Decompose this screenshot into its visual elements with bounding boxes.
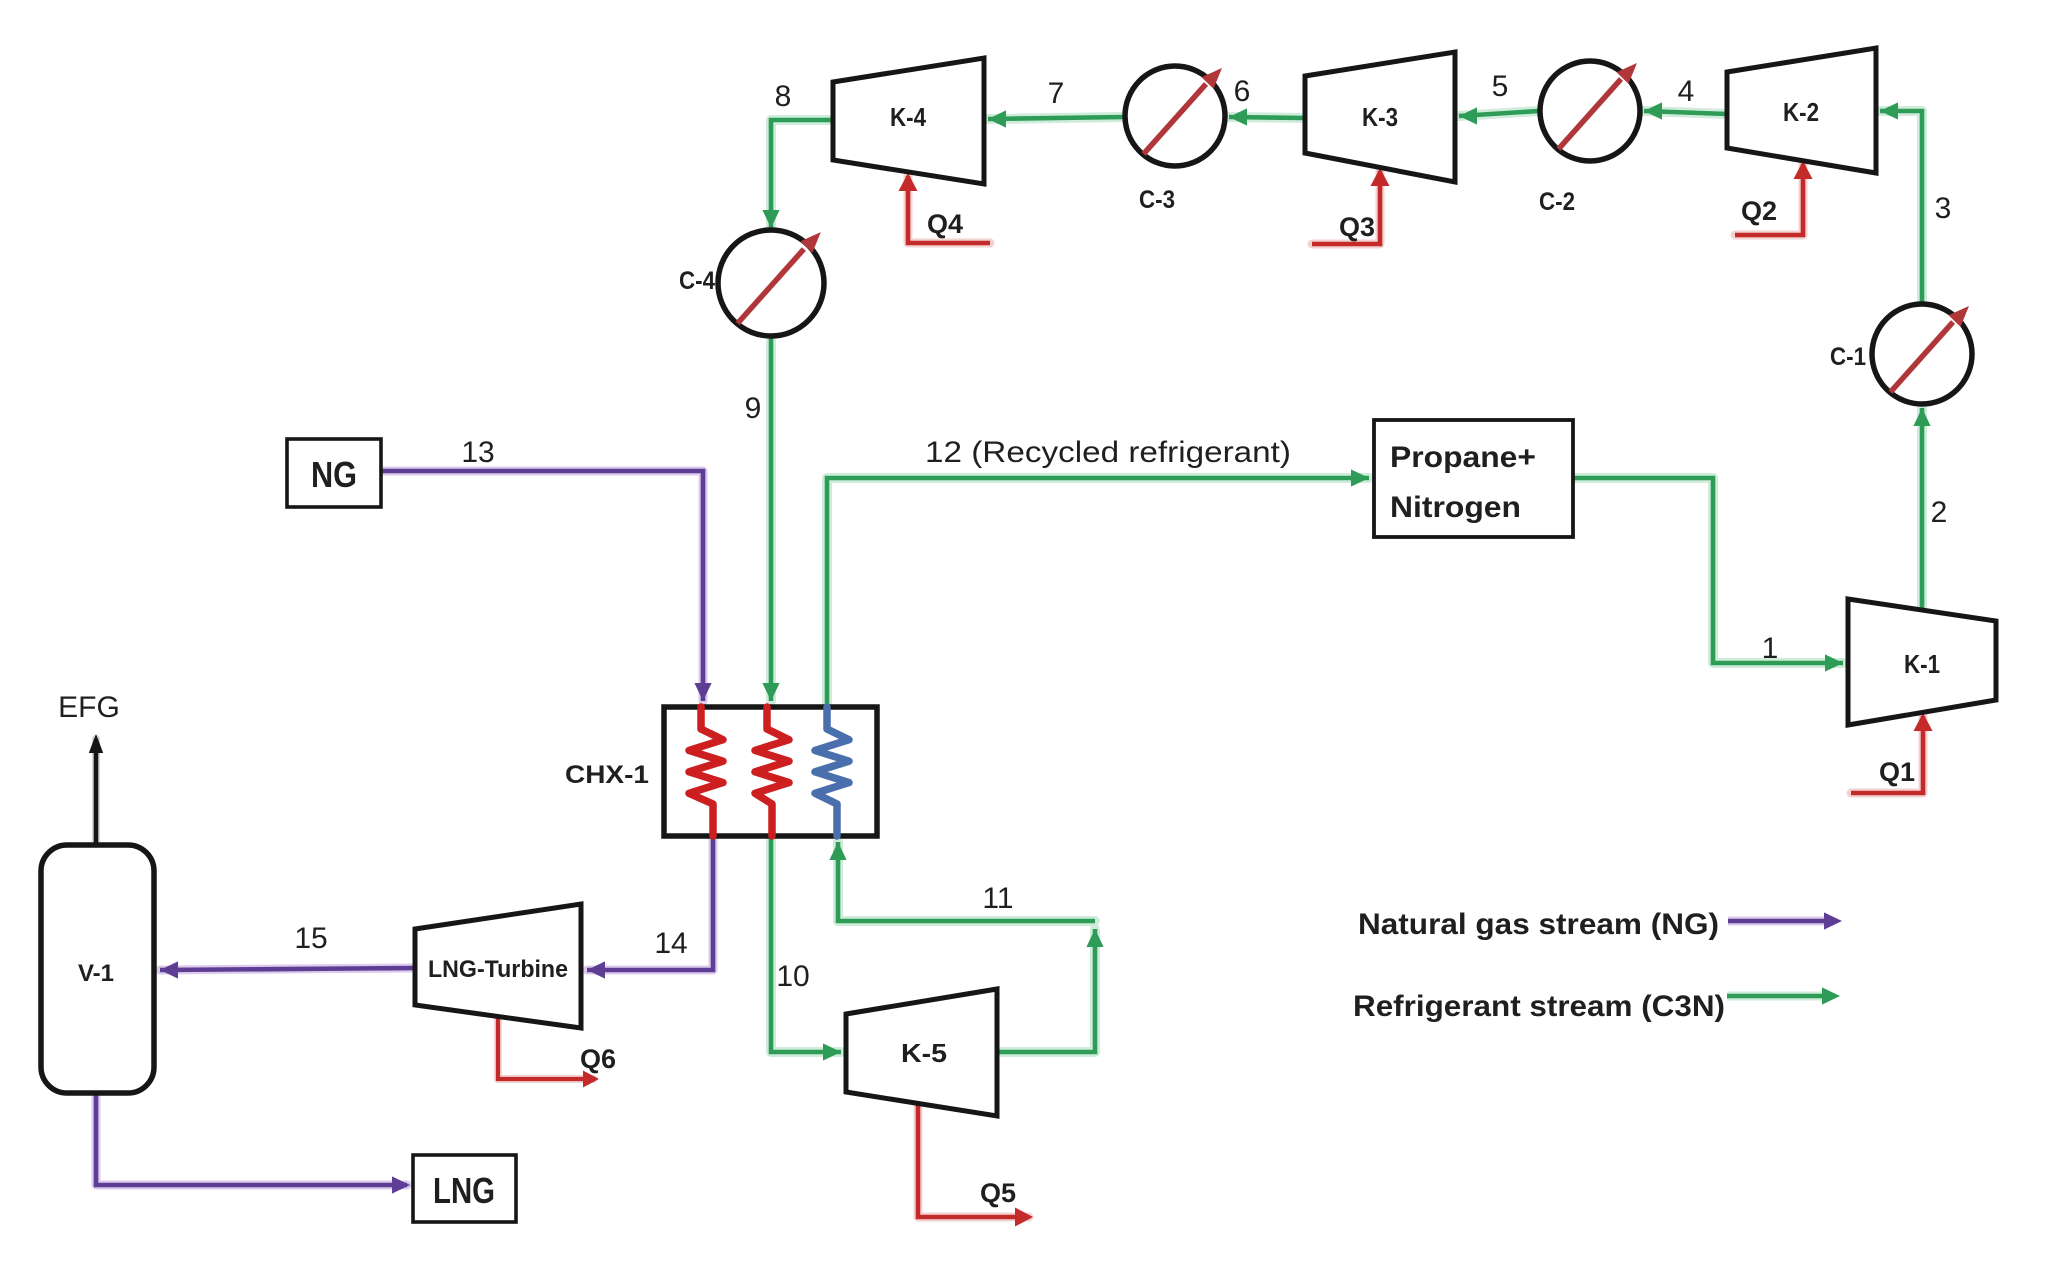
NG feed box xyxy=(287,439,381,507)
svg-text:3: 3 xyxy=(1935,192,1952,225)
svg-text:10: 10 xyxy=(776,960,809,993)
svg-text:Natural gas stream (NG): Natural gas stream (NG) xyxy=(1358,908,1719,941)
svg-text:NG: NG xyxy=(311,454,357,495)
stream 9 wire xyxy=(762,337,779,701)
stream 14 wire xyxy=(587,836,713,979)
compressor K-3 xyxy=(1305,52,1455,182)
svg-text:Q6: Q6 xyxy=(580,1044,616,1074)
svg-text:CHX-1: CHX-1 xyxy=(565,761,649,789)
heat exchanger CHX-1 xyxy=(664,707,877,836)
svg-text:Q4: Q4 xyxy=(927,209,963,239)
compressor K-5 xyxy=(846,989,997,1116)
svg-text:1: 1 xyxy=(1762,632,1779,665)
Q6 work arrow xyxy=(498,1016,599,1088)
svg-text:4: 4 xyxy=(1678,75,1695,108)
stream 1 wire xyxy=(1573,478,1843,672)
legend refrigerant stream xyxy=(1353,987,1840,1023)
cooler C-3 xyxy=(1125,66,1225,214)
svg-text:13: 13 xyxy=(461,436,494,469)
Q3 work arrow xyxy=(1312,168,1390,244)
svg-text:2: 2 xyxy=(1931,496,1948,529)
svg-text:K-1: K-1 xyxy=(1904,649,1940,679)
stream 4 wire xyxy=(1644,102,1727,119)
svg-text:Q2: Q2 xyxy=(1741,196,1777,226)
stream 5 wire xyxy=(1459,107,1539,124)
svg-text:K-5: K-5 xyxy=(901,1038,947,1068)
stream 12 wire xyxy=(827,469,1369,707)
svg-text:K-4: K-4 xyxy=(890,102,926,132)
stream 15 wire xyxy=(160,961,415,978)
compressor K-1 xyxy=(1848,599,1996,725)
svg-text:11: 11 xyxy=(982,882,1013,915)
Q1 work arrow xyxy=(1851,713,1933,793)
Q5 work arrow xyxy=(918,1103,1033,1227)
cooler C-1 xyxy=(1830,304,1972,404)
svg-text:Propane+: Propane+ xyxy=(1390,441,1536,474)
svg-text:6: 6 xyxy=(1234,75,1251,108)
LNG product wire xyxy=(96,1093,410,1194)
svg-text:LNG: LNG xyxy=(433,1170,495,1211)
stream 3 wire xyxy=(1880,102,1922,303)
stream 7 wire xyxy=(988,110,1124,127)
svg-text:K-3: K-3 xyxy=(1362,102,1398,132)
cooler C-2 xyxy=(1539,61,1640,216)
compressor K-4 xyxy=(833,58,984,184)
cooler C-4 xyxy=(679,230,824,336)
compressor K-2 xyxy=(1727,48,1876,173)
svg-text:C-2: C-2 xyxy=(1539,188,1575,216)
svg-text:5: 5 xyxy=(1492,70,1509,103)
CHX-1 cold coil (refrigerant) xyxy=(815,707,849,836)
svg-text:LNG-Turbine: LNG-Turbine xyxy=(428,956,568,983)
compressor LNG-Turbine xyxy=(415,904,581,1028)
Q4 work arrow xyxy=(899,173,991,243)
svg-text:Nitrogen: Nitrogen xyxy=(1390,491,1521,524)
EFG vapour wire xyxy=(89,734,103,845)
svg-text:15: 15 xyxy=(294,922,327,955)
svg-text:K-2: K-2 xyxy=(1783,97,1819,127)
svg-text:7: 7 xyxy=(1048,77,1065,110)
svg-text:V-1: V-1 xyxy=(78,960,114,987)
svg-text:Q5: Q5 xyxy=(980,1178,1016,1208)
Q2 work arrow xyxy=(1735,161,1813,235)
svg-text:C-3: C-3 xyxy=(1139,186,1175,214)
svg-text:C-1: C-1 xyxy=(1830,343,1866,371)
separator V-1 xyxy=(41,845,154,1093)
svg-text:14: 14 xyxy=(654,927,687,960)
svg-text:C-4: C-4 xyxy=(679,267,715,295)
svg-text:Q1: Q1 xyxy=(1879,757,1915,787)
LNG product box xyxy=(413,1155,516,1222)
Propane+Nitrogen makeup box xyxy=(1374,420,1573,537)
svg-text:Refrigerant stream (C3N): Refrigerant stream (C3N) xyxy=(1353,990,1725,1023)
CHX-1 hot coil (refrigerant) xyxy=(755,707,789,836)
stream 11 return wire xyxy=(829,842,1095,921)
svg-text:9: 9 xyxy=(745,392,762,425)
legend natural gas stream xyxy=(1358,908,1842,941)
stream 2 wire xyxy=(1913,408,1930,610)
stream 8 wire xyxy=(762,120,833,228)
svg-text:Q3: Q3 xyxy=(1339,212,1375,242)
svg-text:12 (Recycled refrigerant): 12 (Recycled refrigerant) xyxy=(925,436,1291,469)
stream 13 wire xyxy=(381,471,712,701)
stream 10 wire xyxy=(771,836,841,1061)
svg-text:8: 8 xyxy=(775,80,792,113)
stream 6 wire xyxy=(1229,108,1305,125)
stream 11 wire xyxy=(997,929,1104,1052)
svg-text:EFG: EFG xyxy=(58,691,120,724)
CHX-1 hot coil (NG) xyxy=(689,707,723,836)
